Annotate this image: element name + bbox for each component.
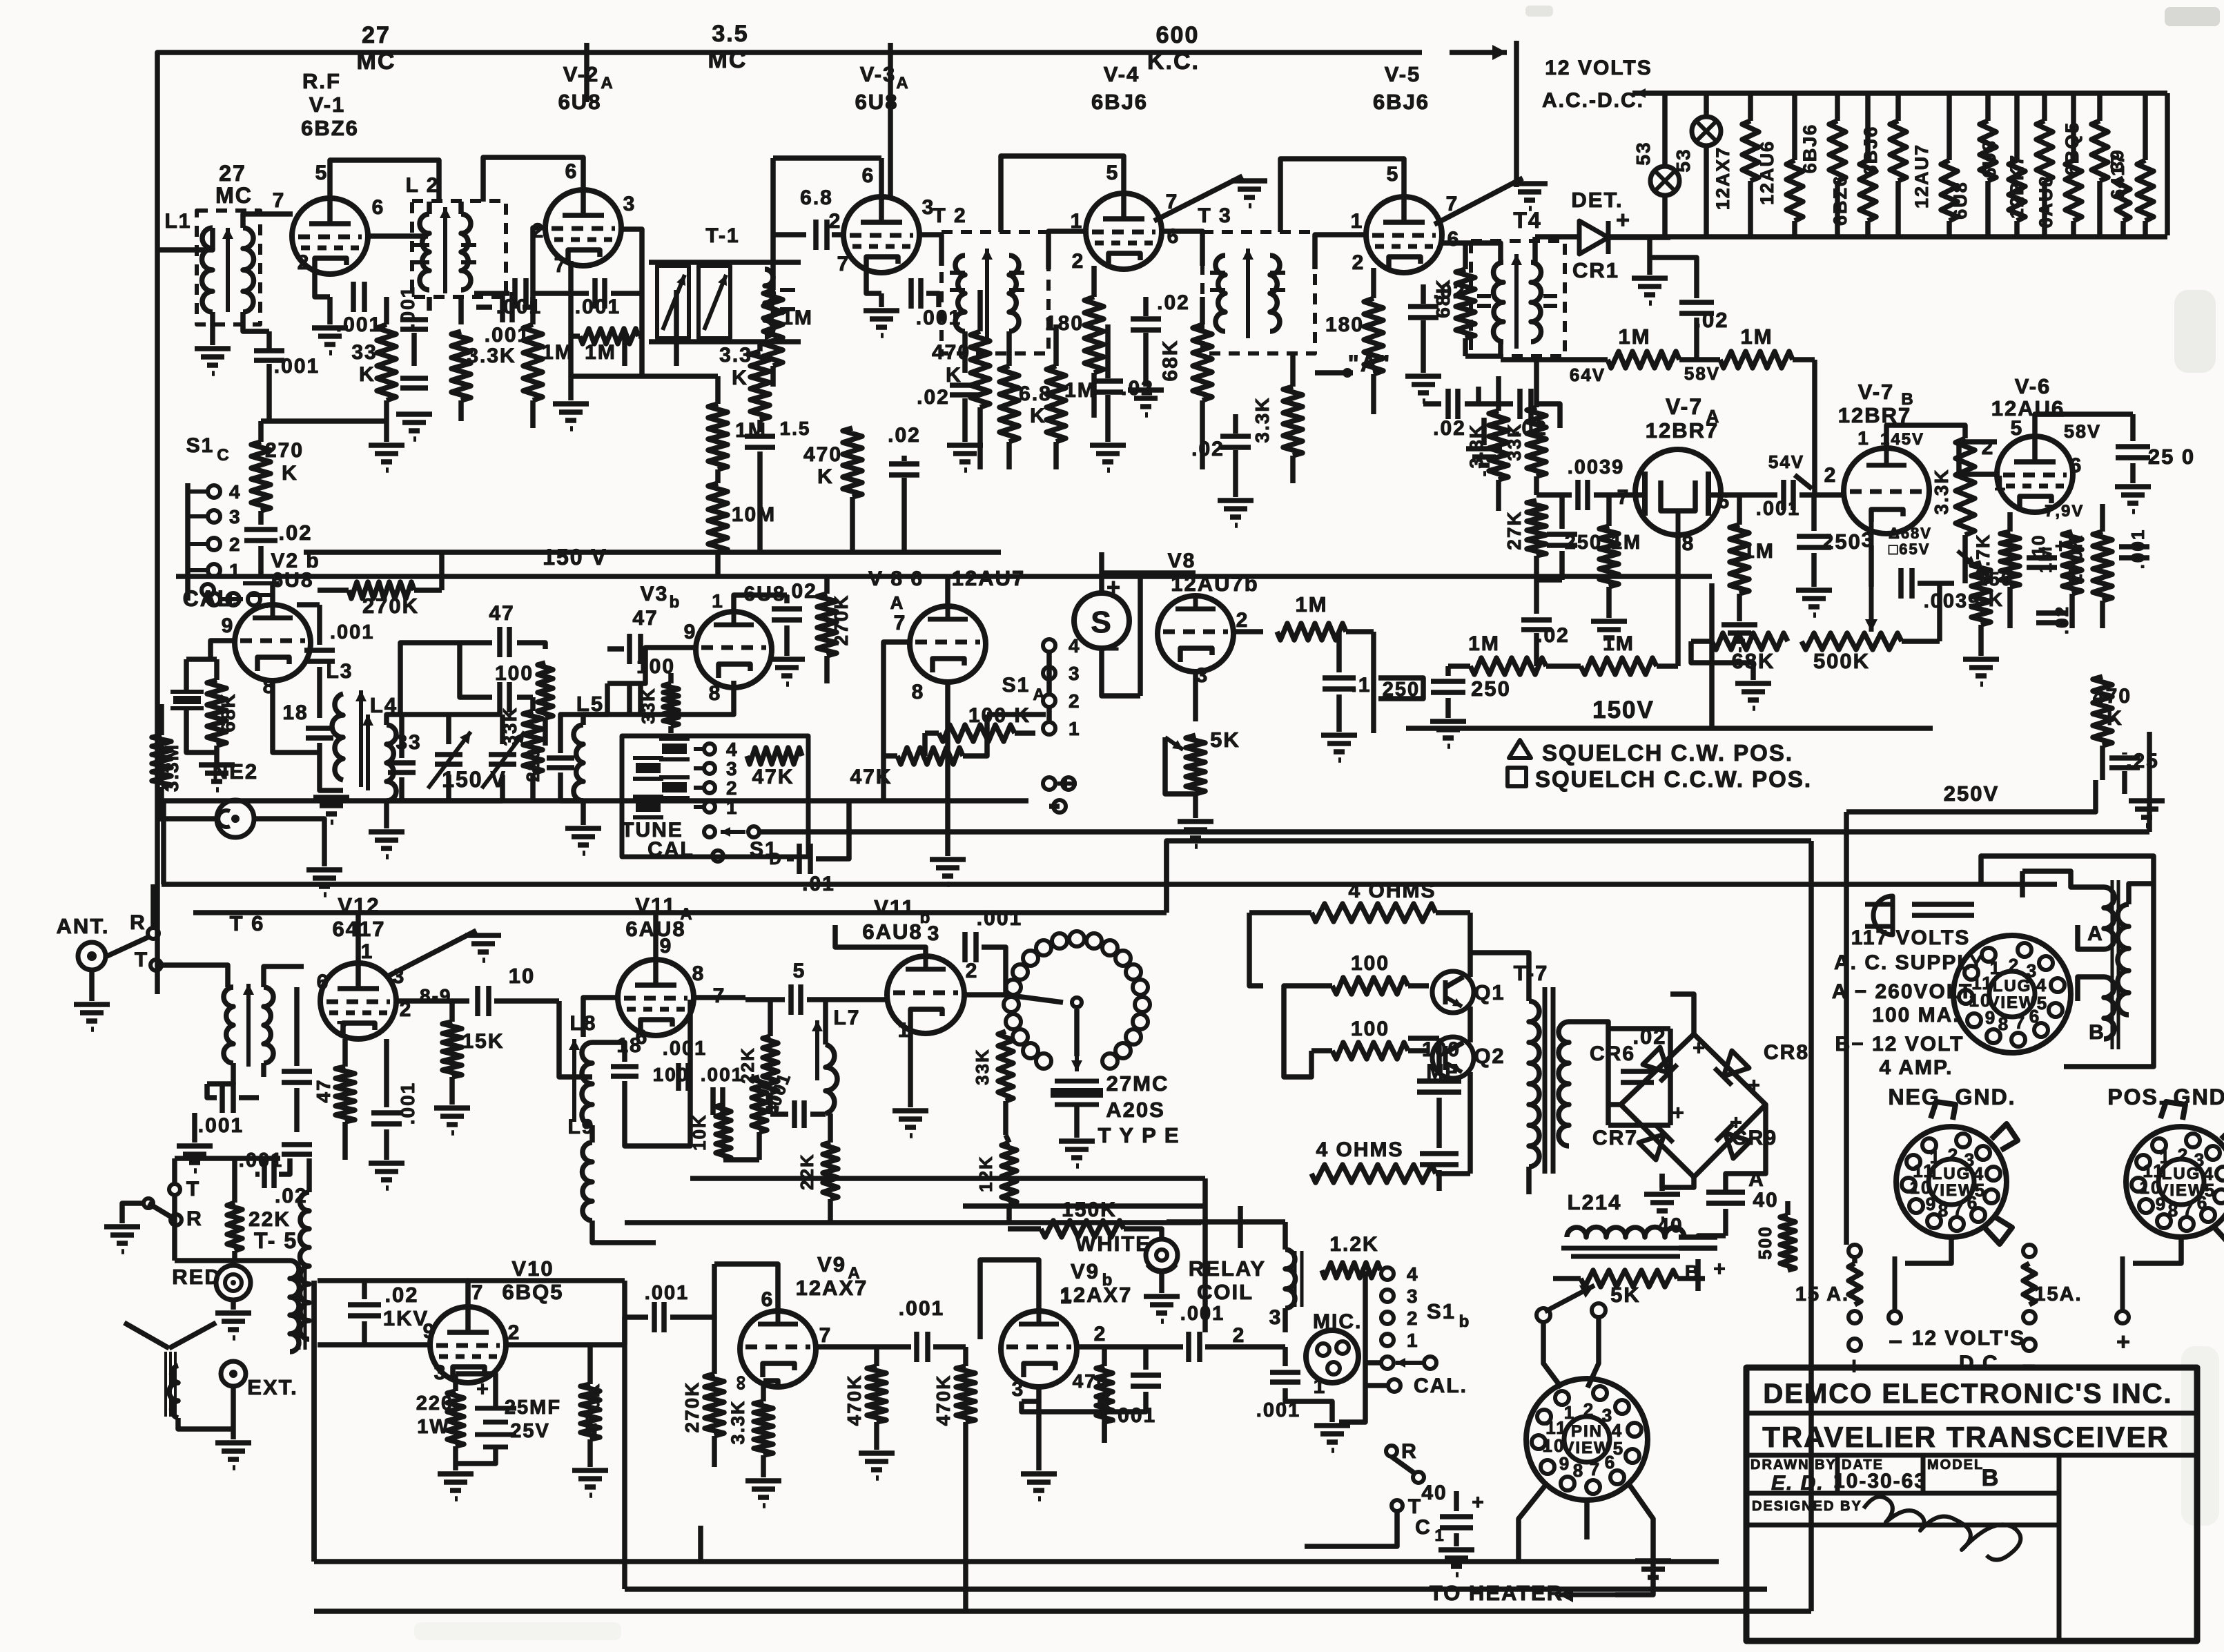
- resistor 1M a: [1448, 658, 1546, 674]
- svg-text:SQUELCH C.C.W. POS.: SQUELCH C.C.W. POS.: [1535, 766, 1812, 792]
- wire: [1608, 1026, 1670, 1031]
- svg-text:2: 2: [829, 210, 842, 233]
- tube V3b 6U8 (triode): [696, 612, 772, 688]
- ground ANT: [74, 1004, 110, 1029]
- wire: [877, 1344, 911, 1350]
- T6 arrow: [243, 984, 254, 1067]
- svg-text:1M: 1M: [2035, 545, 2056, 573]
- wire T1 top: [649, 260, 801, 265]
- S1b wiper: [1396, 1358, 1423, 1368]
- wire: [384, 801, 389, 828]
- wire: [261, 1063, 266, 1077]
- T-7 secondary: [1559, 1022, 1569, 1146]
- svg-text:−: −: [1104, 634, 1120, 663]
- L8: [582, 1042, 592, 1125]
- crystal 1: [633, 797, 663, 817]
- wire: [2022, 871, 2104, 887]
- wire: [1978, 625, 1984, 656]
- capacitor .001: [713, 1087, 723, 1115]
- tube V11A 6AU8: [618, 960, 694, 1036]
- capacitor .0039: [1578, 480, 1588, 510]
- svg-text:4 AMP.: 4 AMP.: [1879, 1056, 1953, 1079]
- svg-text:270K: 270K: [681, 1381, 703, 1433]
- svg-text:58V: 58V: [1684, 363, 1720, 384]
- tube V2b 6U8 (triode): [235, 605, 311, 681]
- svg-text:3.5: 3.5: [712, 21, 748, 47]
- ground C1: [1438, 1550, 1474, 1575]
- svg-text:+: +: [1672, 1102, 1686, 1125]
- neon lamp NE2: [217, 800, 254, 837]
- svg-text:12BR7: 12BR7: [1646, 418, 1719, 443]
- svg-text:5: 5: [1106, 162, 1120, 184]
- svg-text:39: 39: [2107, 149, 2127, 172]
- svg-text:6U8: 6U8: [271, 569, 313, 592]
- wire: [172, 1158, 177, 1184]
- svg-text:10-30-63: 10-30-63: [1833, 1470, 1927, 1493]
- S1b contact 4: [1381, 1267, 1394, 1280]
- capacitor 250: [1431, 681, 1465, 692]
- wire rail up: [1709, 583, 1715, 728]
- svg-text:27: 27: [219, 161, 246, 186]
- wire 58V down: [1812, 360, 1817, 495]
- svg-text:7: 7: [1590, 1459, 1601, 1479]
- capacitor .02: [1408, 307, 1438, 318]
- svg-text:7: 7: [554, 254, 567, 277]
- T2 primary capacitor: [950, 271, 965, 275]
- pilot lamp 53: [1650, 166, 1679, 195]
- switch blade ANT: [107, 936, 150, 956]
- svg-text:.01: .01: [802, 873, 835, 895]
- resistor 6.8K: [999, 331, 1019, 469]
- svg-text:33K: 33K: [972, 1048, 993, 1085]
- svg-text:15 A.: 15 A.: [1795, 1283, 1849, 1305]
- wire: [207, 1063, 233, 1084]
- svg-text:8: 8: [1682, 532, 1695, 555]
- svg-text:PIN: PIN: [1571, 1422, 1603, 1441]
- wire L2 to 3.3K: [458, 297, 464, 324]
- capacitor .02: [950, 385, 980, 395]
- svg-text:3: 3: [726, 758, 739, 779]
- output transformer core: [164, 1352, 167, 1417]
- psu outer box: [1844, 832, 1849, 1245]
- svg-text:.02: .02: [888, 424, 921, 447]
- wire T1 bottom: [649, 339, 801, 344]
- svg-text:7: 7: [1953, 1198, 1964, 1219]
- svg-text:470K: 470K: [582, 1383, 603, 1435]
- svg-text:250: 250: [1565, 532, 1602, 554]
- svg-text:5: 5: [2011, 417, 2024, 440]
- wire: [816, 801, 849, 859]
- svg-text:1: 1: [1060, 1285, 1073, 1308]
- switch blade: [1392, 1457, 1416, 1475]
- svg-text:2: 2: [508, 1321, 521, 1344]
- capacitor 1.5: [745, 436, 775, 447]
- title block: [1746, 1368, 2197, 1641]
- wire V3b plate: [734, 595, 787, 612]
- wire: [2122, 771, 2127, 794]
- wire pin7 down: [568, 293, 574, 336]
- wire V1 cathode down: [327, 297, 333, 324]
- svg-text:B: B: [2089, 1021, 2105, 1044]
- svg-text:1M: 1M: [1603, 632, 1635, 655]
- T3 arrow: [1242, 249, 1254, 338]
- svg-text:4: 4: [229, 481, 242, 503]
- wire: [531, 291, 589, 296]
- svg-text:.0039: .0039: [1568, 456, 1625, 478]
- wire relay up: [1282, 1222, 1288, 1250]
- neg lead: [1889, 1311, 1901, 1323]
- crystal CAL: [170, 690, 204, 694]
- ground WHITE: [1144, 1296, 1180, 1321]
- scan smudge right edge: [2174, 290, 2216, 373]
- svg-text:6: 6: [2070, 454, 2083, 477]
- svg-text:MODEL: MODEL: [1927, 1457, 1984, 1473]
- svg-text:7: 7: [819, 1324, 832, 1347]
- wire bridge top: [1670, 994, 1694, 1034]
- capacitor 250: [1797, 536, 1831, 547]
- heater resistor 6BQ5: [2091, 93, 2108, 235]
- svg-text:25MF: 25MF: [505, 1397, 561, 1419]
- psu primary: [2118, 904, 2129, 1015]
- wire: [1339, 1363, 1365, 1422]
- wire to NE2: [162, 816, 217, 822]
- wire: [279, 1158, 290, 1174]
- resistor 470K b: [956, 1347, 975, 1609]
- svg-text:1M: 1M: [1468, 632, 1500, 655]
- svg-text:L8: L8: [569, 1012, 596, 1035]
- wire plug b: [1912, 902, 1974, 907]
- cal contact: [712, 851, 723, 862]
- svg-text:7: 7: [837, 253, 850, 275]
- wire V9b out: [1077, 1344, 1173, 1350]
- ground switch: [104, 1227, 140, 1252]
- wire: [784, 625, 790, 656]
- wire bus 1747: [963, 1203, 1205, 1209]
- svg-text:11: 11: [1913, 1160, 1935, 1181]
- wire: [568, 376, 574, 400]
- T-1 coil: [765, 269, 774, 337]
- wire: [232, 1251, 237, 1261]
- jack EXT: [221, 1361, 246, 1386]
- svg-text:1: 1: [361, 940, 374, 963]
- wire S meter bottom: [1102, 648, 1140, 696]
- capacitor .02: [1521, 620, 1552, 630]
- wire: [1105, 395, 1111, 442]
- svg-text:150K: 150K: [1062, 1198, 1117, 1221]
- wire 1M down: [1371, 632, 1376, 733]
- wire: [317, 605, 322, 645]
- resistor 270K: [2093, 504, 2112, 628]
- wire: [1662, 195, 1668, 235]
- wire T6 sec top: [264, 966, 304, 987]
- wire bus mid: [164, 798, 1028, 804]
- wire bottom bus 1: [314, 1559, 1719, 1564]
- wire: [178, 1418, 233, 1429]
- resistor 3.3K: [754, 1381, 773, 1477]
- resistor 1.2K: [1322, 1263, 1381, 1278]
- svg-text:7: 7: [337, 1018, 350, 1040]
- svg-text:500K: 500K: [1813, 649, 1870, 673]
- resistor 1M horiz: [571, 329, 642, 344]
- svg-text:47: 47: [489, 602, 514, 625]
- wire: [674, 290, 679, 366]
- tube V6 12AU6: [1997, 436, 2073, 512]
- tube V1 6BZ6: [292, 198, 368, 274]
- svg-text:15K: 15K: [462, 1030, 504, 1053]
- svg-text:R: R: [130, 911, 146, 934]
- ground: [1218, 501, 1254, 525]
- svg-text:100: 100: [1351, 952, 1389, 975]
- svg-text:Δ68V: Δ68V: [1889, 525, 1932, 542]
- cathode V3A: [866, 268, 881, 293]
- svg-text:.02: .02: [1157, 291, 1190, 314]
- wire V8b out: [1233, 629, 1263, 634]
- ground 470K: [859, 1453, 895, 1478]
- svg-text:+: +: [1693, 1037, 1706, 1060]
- diode CR7: [1639, 1125, 1673, 1160]
- resistor 3.3K: [451, 331, 471, 421]
- wire: [384, 1129, 389, 1160]
- svg-text:9: 9: [684, 621, 697, 643]
- capacitor 100: [630, 682, 641, 712]
- capacitor .001: [282, 1145, 312, 1154]
- wire: [1421, 284, 1426, 304]
- resistor 3.3M: [152, 704, 171, 822]
- svg-text:.001: .001: [899, 1297, 944, 1320]
- svg-text:6: 6: [761, 1288, 774, 1311]
- arrow heater bus: [1636, 88, 1670, 98]
- ground L4: [369, 832, 404, 857]
- white jack: [1146, 1239, 1178, 1271]
- wire V2b cathode: [273, 681, 318, 752]
- wire: [1408, 1036, 1439, 1041]
- svg-text:1: 1: [1407, 1330, 1419, 1351]
- ground bridge: [1644, 1194, 1680, 1219]
- svg-text:150: 150: [1977, 568, 2013, 590]
- L8 arrow: [569, 1039, 580, 1122]
- svg-text:6: 6: [2029, 1006, 2040, 1027]
- capacitor 10: [478, 986, 489, 1016]
- svg-text:1M: 1M: [1295, 592, 1327, 616]
- resistor 3.3K: [1283, 353, 1303, 483]
- wire V12 out: [396, 998, 469, 1004]
- ground: [1721, 625, 1757, 650]
- svg-text:K: K: [282, 462, 298, 485]
- resistor 68K: [1691, 633, 1788, 650]
- wire: [1844, 812, 1849, 832]
- svg-text:3: 3: [928, 922, 941, 945]
- resistor 150K: [1008, 1221, 1124, 1237]
- svg-text:6AU8: 6AU8: [862, 920, 922, 944]
- wire T down: [172, 1195, 177, 1261]
- svg-text:12AX7: 12AX7: [796, 1276, 868, 1300]
- wire: [523, 297, 533, 307]
- wire: [1695, 1259, 1701, 1291]
- svg-text:6.8: 6.8: [800, 186, 833, 209]
- svg-text:33K: 33K: [1504, 422, 1525, 461]
- svg-text:180: 180: [1045, 312, 1084, 335]
- wire V2A grid left: [533, 228, 545, 297]
- wire to MIC: [1205, 1344, 1285, 1350]
- antenna jack: [78, 942, 106, 970]
- svg-text:B: B: [1982, 1465, 2000, 1491]
- T4 arrow: [1511, 254, 1522, 349]
- svg-text:K: K: [2107, 707, 2123, 730]
- wire: [1698, 1236, 1726, 1237]
- svg-text:ANT.: ANT.: [57, 914, 110, 938]
- wire V9b plate: [980, 1260, 1039, 1339]
- resistor 1M: [1277, 623, 1374, 640]
- svg-text:27MC: 27MC: [1106, 1071, 1169, 1096]
- xtal terminal 2: [704, 782, 715, 793]
- resistor 5K: [1553, 1270, 1705, 1287]
- wire: [1785, 1201, 1791, 1215]
- T2 secondary: [1009, 255, 1019, 331]
- T3 secondary: [1270, 255, 1280, 331]
- svg-text:600: 600: [1156, 22, 1200, 48]
- capacitor .02: [2036, 613, 2067, 623]
- jack RED: [216, 1265, 251, 1300]
- wire: [500, 715, 505, 744]
- ground: [1405, 376, 1441, 401]
- wire: [184, 659, 189, 692]
- wire V9A plate: [714, 1264, 778, 1311]
- svg-text:22K: 22K: [737, 1047, 758, 1084]
- svg-text:18: 18: [282, 701, 308, 724]
- svg-text:2: 2: [1824, 464, 1837, 487]
- ground pin view: [1635, 1561, 1671, 1586]
- wire: [476, 304, 492, 310]
- wire: [745, 997, 785, 1002]
- svg-text:V-7: V-7: [1858, 380, 1895, 404]
- svg-text:12AU7: 12AU7: [952, 566, 1026, 590]
- wire: [1467, 1072, 1473, 1174]
- ground 470K: [572, 1470, 608, 1495]
- wire: [2078, 977, 2104, 1001]
- resistor 33K: [663, 673, 679, 733]
- svg-text:V3: V3: [641, 583, 669, 605]
- svg-text:2: 2: [1069, 690, 1081, 712]
- resistor 1M: [763, 235, 783, 387]
- svg-text:.001: .001: [645, 1282, 689, 1304]
- wire: [258, 546, 264, 576]
- wire L1 primary to ground: [210, 312, 215, 345]
- 54V pointer: [1795, 475, 1812, 489]
- scan smudge top right: [2165, 7, 2220, 26]
- heater resistor 6U8: [1980, 93, 1996, 235]
- wire to V7A grid: [1537, 492, 1572, 498]
- wire: [698, 1526, 703, 1562]
- svg-text:68K: 68K: [1432, 278, 1454, 318]
- capacitor 250: [2116, 447, 2150, 458]
- svg-text:.1: .1: [1351, 674, 1371, 697]
- wire L1 top feed: [157, 228, 213, 250]
- S1b contact 1: [1381, 1334, 1394, 1346]
- T4 capacitors: [1477, 294, 1491, 298]
- ground L5: [565, 828, 601, 853]
- V2b cal caps: [243, 581, 279, 585]
- wire: [228, 984, 233, 990]
- wire: [810, 1111, 826, 1117]
- svg-text:CAL: CAL: [647, 838, 694, 861]
- svg-text:8: 8: [1998, 1013, 2009, 1034]
- wire V1 plate to L2: [330, 160, 439, 202]
- ground EXT: [215, 1443, 251, 1468]
- svg-text:+: +: [1730, 1111, 1744, 1134]
- diode CR8: [1715, 1051, 1749, 1085]
- wire: [1726, 1105, 1766, 1192]
- svg-text:L 2: L 2: [406, 174, 440, 197]
- capacitor .001 b: [1131, 1375, 1161, 1386]
- tube socket PIN VIEW: [1526, 1379, 1648, 1500]
- capacitor 6.8: [816, 220, 827, 250]
- svg-text:220: 220: [523, 748, 543, 781]
- svg-text:6: 6: [1967, 1192, 1978, 1213]
- S1C contact 4: [208, 485, 220, 498]
- resistor 47: [752, 1077, 767, 1160]
- S1A wiper: [1057, 779, 1077, 788]
- resistor 2.7K: [2000, 512, 2020, 628]
- wire: [1102, 570, 1196, 576]
- heater resistor 6BJ6: [1890, 93, 1906, 235]
- svg-text:5: 5: [1387, 163, 1400, 186]
- wire: [592, 1042, 625, 1062]
- ring center dot: [1072, 998, 1082, 1007]
- svg-text:53: 53: [1632, 141, 1654, 165]
- wire: [1737, 594, 1742, 621]
- wire V7A cathode down: [1675, 535, 1681, 666]
- svg-text:V10: V10: [511, 1256, 554, 1281]
- wire: [1036, 1401, 1042, 1470]
- L214: [1567, 1227, 1684, 1238]
- capacitor .02: [1520, 389, 1531, 419]
- wire top: [175, 1156, 280, 1161]
- resistor 1M: [1608, 351, 1679, 368]
- svg-text:12K: 12K: [975, 1155, 996, 1192]
- wire: [1336, 694, 1342, 732]
- svg-text:.001: .001: [397, 1082, 418, 1125]
- switch blade T/R: [148, 1203, 173, 1218]
- wire ant: [89, 970, 95, 1001]
- capacitor .001 L7: [794, 1100, 804, 1128]
- wire: [362, 1281, 367, 1299]
- svg-text:8: 8: [1573, 1460, 1584, 1481]
- T3 primary capacitor: [1210, 271, 1225, 275]
- wire V9A cathode: [763, 1381, 778, 1387]
- svg-text:1M: 1M: [1740, 324, 1773, 349]
- capacitor .001: [503, 292, 512, 322]
- wire: [832, 232, 843, 237]
- svg-text:.001: .001: [336, 313, 382, 336]
- ground T6: [177, 1146, 213, 1171]
- svg-text:47: 47: [632, 607, 658, 630]
- ground V4: [1128, 390, 1164, 415]
- wire V1 screen right: [367, 233, 428, 239]
- svg-text:T: T: [1408, 1495, 1422, 1518]
- svg-text:V 8 6: V 8 6: [868, 567, 924, 590]
- wire: [384, 428, 389, 442]
- svg-text:33: 33: [351, 341, 377, 364]
- wire: [622, 1081, 627, 1105]
- ground 150K: [1963, 659, 1999, 684]
- wire 22K top: [232, 1158, 237, 1203]
- resistor 4 OHMS: [1249, 904, 1470, 922]
- svg-text:2: 2: [1583, 1399, 1594, 1420]
- svg-text:6: 6: [565, 160, 578, 183]
- capacitor .001: [917, 1332, 928, 1362]
- capacitor .02: [244, 529, 277, 541]
- resistor 270K: [817, 576, 837, 683]
